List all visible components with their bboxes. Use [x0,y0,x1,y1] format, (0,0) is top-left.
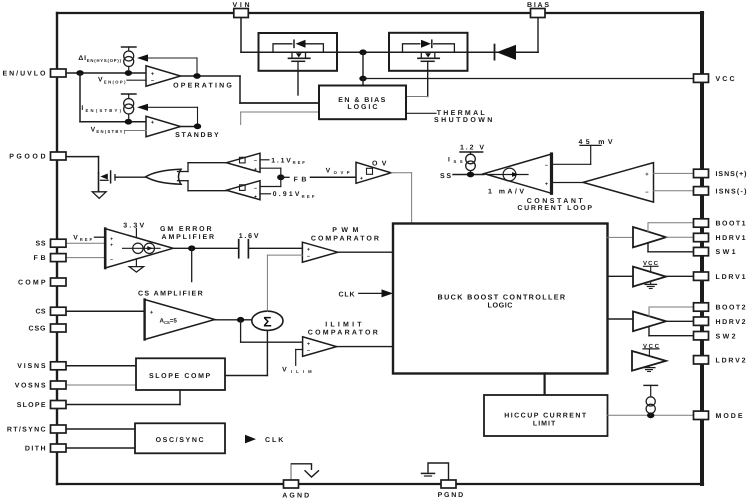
svg-text:VIN: VIN [233,2,250,9]
pin VCC [694,74,735,83]
pin ISNS(+) [694,169,747,178]
svg-text:ISNS(-): ISNS(-) [716,187,747,195]
label THERMAL SHUTDOWN [434,110,492,124]
svg-text:SS: SS [440,173,451,180]
driver U10 LDRV2 [632,351,666,371]
label 3.3V + supply tick [123,223,144,238]
pin BOOT1 [694,219,746,228]
pin ISNS(-) [694,187,747,196]
svg-text:CSG: CSG [29,325,47,332]
svg-text:−: − [307,349,310,355]
current source I_SS [460,152,483,175]
svg-text:PGND: PGND [438,492,464,499]
wire VIN rail [241,18,538,56]
pass FET block Q2 (BIAS side) [389,33,468,71]
driver U7 HDRV1 [633,227,666,247]
pin VOSNS [15,381,66,389]
svg-text:LOGIC: LOGIC [488,301,513,310]
svg-text:CURRENT LOOP: CURRENT LOOP [517,205,592,212]
wire OVP + input to FB node [260,168,281,177]
svg-text:BIAS: BIAS [527,2,549,9]
pin CS [36,307,67,315]
wire controller to HDRV1 driver [608,236,634,238]
wire OPERATING output to EN & BIAS logic [181,73,319,103]
node FB [281,176,356,183]
hysteresis arrow into I_EN(STBY) current source [137,104,198,124]
svg-text:DITH: DITH [25,445,46,452]
wire capacitor to PWM comparator + input [248,247,302,249]
pin COMP [18,278,66,286]
svg-text:SW2: SW2 [716,333,736,340]
label PWM COMPARATOR [311,227,379,242]
svg-text:+: + [360,176,363,182]
wire OV output to controller logic [391,173,412,223]
wire CLK into controller logic [339,289,394,298]
svg-text:CLK: CLK [339,291,355,298]
pass FET block Q1 (VIN side) [259,33,338,71]
ground at LDRV1 driver [645,281,657,288]
wire thermal shutdown [406,112,436,114]
wire VIN junction down to VCC rail [359,52,366,81]
wire CS amp output to summer [215,317,252,323]
wire LDRV1 output [666,275,694,277]
MOSFET M1 PGOOD open-drain [99,171,116,192]
block OSC/SYNC [135,423,225,453]
svg-text:VISNS: VISNS [17,363,46,370]
comparator STANDBY [146,116,181,136]
comparator OVP (1.1 Vref) [226,153,260,173]
wire V_ILIM to ILIMIT - input [296,350,303,366]
svg-text:VOSNS: VOSNS [15,382,46,389]
wire BOOT2 [649,307,694,316]
svg-text:+: + [545,182,548,188]
svg-text:AMPLIFIER: AMPLIFIER [162,234,215,241]
svg-text:LIMIT: LIMIT [533,420,556,427]
wire controller to LDRV1 driver [608,275,634,277]
pin BIAS [527,2,549,18]
wire HDRV1 output [666,236,694,238]
VCC supply at LDRV2 driver [643,343,660,355]
pin HDRV1 [694,233,746,242]
wire hiccup output to MODE pin [608,412,695,418]
wire 45 mV reference [552,145,602,164]
wire EN node down to STANDBY branch [80,73,146,125]
wire COMP pin stub [191,248,193,281]
pin LDRV1 [694,272,746,281]
label V_EN(STBY) + wire to - input [91,127,146,135]
node SS (soft start) [440,172,484,180]
wire summer bottom to slope comp [225,330,267,375]
comparator ILIMIT [303,337,337,357]
svg-text:HDRV2: HDRV2 [716,319,746,326]
svg-text:ILIMIT: ILIMIT [325,322,362,329]
svg-text:HICCUP CURRENT: HICCUP CURRENT [504,413,587,420]
wire summer output up (ramp) [266,310,268,312]
VCC supply at LDRV1 driver [643,260,659,272]
wire SS pin to error amp [66,242,105,244]
block BUCK BOOST CONTROLLER LOGIC [393,224,608,374]
pin CSG [29,324,67,332]
label CONSTANT CURRENT LOOP [517,198,592,212]
wire error amp output to PWM comparator [173,245,239,251]
svg-text:RT/SYNC: RT/SYNC [7,425,46,433]
block HICCUP CURRENT LIMIT [484,395,608,436]
svg-text:−: − [254,186,257,192]
svg-text:−: − [254,158,257,164]
wire RT/SYNC to osc [66,428,135,430]
pin FB [34,254,67,262]
pin VIN [233,2,250,18]
pin BOOT2 [694,303,746,312]
wire VOSNS to slope comp [66,384,136,386]
wire ILIMIT output to controller logic [337,346,393,348]
wire ISNS(-) input [654,190,695,192]
svg-text:+: + [307,341,310,347]
wire CS amp output to ILIMIT comparator [241,320,303,342]
wire CS pin to CS amplifier [66,310,145,312]
wire PGOOD pin to MOSFET drain [66,157,99,173]
wire HDRV2 output [666,320,694,322]
block EN & BIAS LOGIC [319,86,406,120]
svg-text:ISNS(+): ISNS(+) [716,170,747,178]
svg-text:SS: SS [36,241,46,248]
wire M1 gate to OR gate output [115,176,146,178]
comparator PWM [302,242,337,262]
wire UVP - input to FB node [260,174,284,186]
wire EN/UVLO to OPERATING comparator + input [66,70,146,76]
pin SS [36,239,67,247]
svg-text:CS: CS [36,309,46,316]
hysteresis arrow into dI_EN current source [137,54,197,73]
svg-text:+: + [254,167,257,173]
pin AGND [282,480,309,500]
wire FB pin to error amp [66,257,105,259]
svg-text:CLK: CLK [265,437,283,444]
svg-text:SLOPE: SLOPE [17,402,46,409]
pin PGND [438,480,464,499]
svg-text:BOOT2: BOOT2 [716,305,746,312]
label 0.91VREF + wire [260,191,315,199]
pin LDRV2 [694,356,746,365]
ground at LDRV2 driver [643,366,655,372]
wire V_REF to error amp [73,234,105,242]
pin VISNS [17,362,66,370]
svg-text:CS AMPLIFIER: CS AMPLIFIER [138,290,203,297]
pin MODE [694,411,743,420]
pin EN/UVLO [3,69,67,77]
svg-text:1.2 V: 1.2 V [460,144,484,151]
svg-text:+: + [254,194,257,200]
wire controller to HDRV2 driver [608,318,634,320]
label V_EN(OP) + wire to - input [98,77,146,85]
pin SLOPE [17,401,66,409]
wire current loop + input from ISNS amp [552,182,584,184]
current source at MODE pin [644,385,658,415]
CLK net flag from oscillator [245,435,283,444]
svg-text:VCC: VCC [716,76,735,83]
PGND ground symbol [422,463,449,480]
svg-text:+: + [307,247,310,253]
pin SW2 [694,332,736,341]
pin DITH [25,444,66,452]
op-amp U3 constant current loop 1 mA/V [484,154,552,193]
driver U8 LDRV1 [633,267,666,287]
OR gate U2 (PGOOD fault) [146,169,181,184]
wire ramp to PWM - input [267,255,302,311]
wire SLOPE pin to slope comp [66,390,180,405]
wire DITH to osc [66,447,135,449]
svg-text:Σ: Σ [263,313,271,329]
wire Q1 gate lead [297,72,299,95]
wire EN & BIAS logic to VCC rail [362,79,364,86]
svg-text:EN/UVLO: EN/UVLO [3,69,47,77]
svg-text:SW1: SW1 [716,249,736,256]
wire SW2 [649,327,694,336]
wire SW1 [648,243,694,252]
op-amp U5 GM error amplifier [105,229,173,268]
diode D1 (BIAS to VCC path) [468,45,539,60]
capacitor C1 1.6V clamp [239,233,259,258]
label ILIMIT COMPARATOR [308,322,378,337]
wire PWM output to controller logic [338,251,393,253]
comparator OV [356,162,391,183]
svg-text:HDRV1: HDRV1 [716,235,746,242]
label 1.1VREF + wire [260,158,305,166]
svg-text:SHUTDOWN: SHUTDOWN [434,117,492,124]
pin PGOOD [9,152,66,160]
pin RT/SYNC [7,425,66,433]
op-amp U6 CS amplifier [145,300,215,340]
wire controller logic to hiccup block [543,374,545,396]
wire ISNS(+) input [654,172,695,174]
comparator UVP (0.91 Vref) [226,181,260,201]
wire STANDBY net to EN & BIAS logic [241,112,319,125]
svg-text:−: − [110,257,113,263]
wire VCC rail to VCC pin [363,78,694,80]
svg-text:−: − [545,163,548,169]
svg-text:EN & BIAS: EN & BIAS [338,97,385,104]
ground below PGOOD MOSFET [92,192,106,199]
svg-text:−: − [307,254,310,260]
wire BIAS pin drop [537,18,539,53]
wire STANDBY output [181,123,202,129]
svg-text:COMP: COMP [18,279,46,286]
wire OR gate inputs to comparator outputs [178,163,227,191]
driver U9 HDRV2 [633,311,666,331]
ground below error amp [129,260,143,272]
svg-text:OSC/SYNC: OSC/SYNC [156,436,204,444]
wire Q2 gate lead to EN & BIAS logic [406,72,428,97]
svg-text:1.6V: 1.6V [239,233,259,240]
svg-text:+: + [110,242,113,248]
svg-text:FB: FB [34,255,46,262]
block SLOPE COMP [136,358,225,390]
svg-text:3.3V: 3.3V [123,223,144,230]
svg-text:PWM: PWM [332,227,358,234]
comparator OPERATING [146,66,181,86]
op-amp U4 ISNS current sense [583,163,654,203]
current source dI_EN(HYS(OP)) [122,47,137,71]
AGND return symbol [291,464,319,480]
pin SW1 [694,247,736,256]
current source I_EN(STBY) [122,94,137,120]
svg-text:GM ERROR: GM ERROR [160,226,212,233]
summer (sigma) [252,311,283,330]
pin HDRV2 [694,317,746,326]
label GM ERROR AMPLIFIER [160,226,214,241]
wire BOOT1 [648,223,694,232]
svg-text:BOOT1: BOOT1 [716,221,746,228]
svg-text:OPERATING: OPERATING [173,82,232,89]
wire VISNS to slope comp [66,365,136,367]
